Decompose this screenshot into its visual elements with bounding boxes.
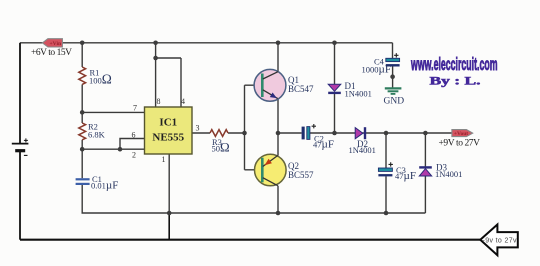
- svg-text:1000µF: 1000µF: [362, 64, 391, 76]
- svg-text:By : L.: By : L.: [430, 74, 481, 88]
- svg-text:7: 7: [133, 104, 137, 113]
- svg-text:+Vin: +Vin: [50, 41, 62, 47]
- svg-text:6: 6: [132, 131, 136, 140]
- svg-text:3: 3: [196, 124, 200, 133]
- svg-text:+9V to 27V: +9V to 27V: [439, 139, 481, 149]
- svg-text:47µF: 47µF: [313, 139, 334, 151]
- svg-text:BC557: BC557: [288, 170, 314, 180]
- svg-text:+6V to 15V: +6V to 15V: [31, 48, 72, 58]
- svg-text:-9v to 27v: -9v to 27v: [483, 238, 518, 245]
- svg-text:1N4001: 1N4001: [345, 89, 372, 99]
- svg-text:6.8K: 6.8K: [88, 130, 106, 140]
- svg-text:47µF: 47µF: [395, 170, 416, 182]
- svg-text:NE555: NE555: [152, 132, 184, 144]
- svg-text:4: 4: [181, 97, 185, 106]
- svg-text:1: 1: [162, 155, 166, 164]
- svg-text:www.eleccircuit.com: www.eleccircuit.com: [410, 54, 497, 74]
- svg-text:0.01µF: 0.01µF: [91, 180, 118, 192]
- svg-text:1N4001: 1N4001: [349, 145, 376, 155]
- svg-text:GND: GND: [384, 97, 405, 107]
- svg-text:BC547: BC547: [288, 84, 314, 94]
- svg-text:+Vout: +Vout: [454, 131, 468, 137]
- svg-text:IC1: IC1: [159, 117, 177, 129]
- svg-text:1N4001: 1N4001: [435, 169, 462, 179]
- svg-text:8: 8: [157, 97, 161, 106]
- svg-text:2: 2: [132, 151, 136, 160]
